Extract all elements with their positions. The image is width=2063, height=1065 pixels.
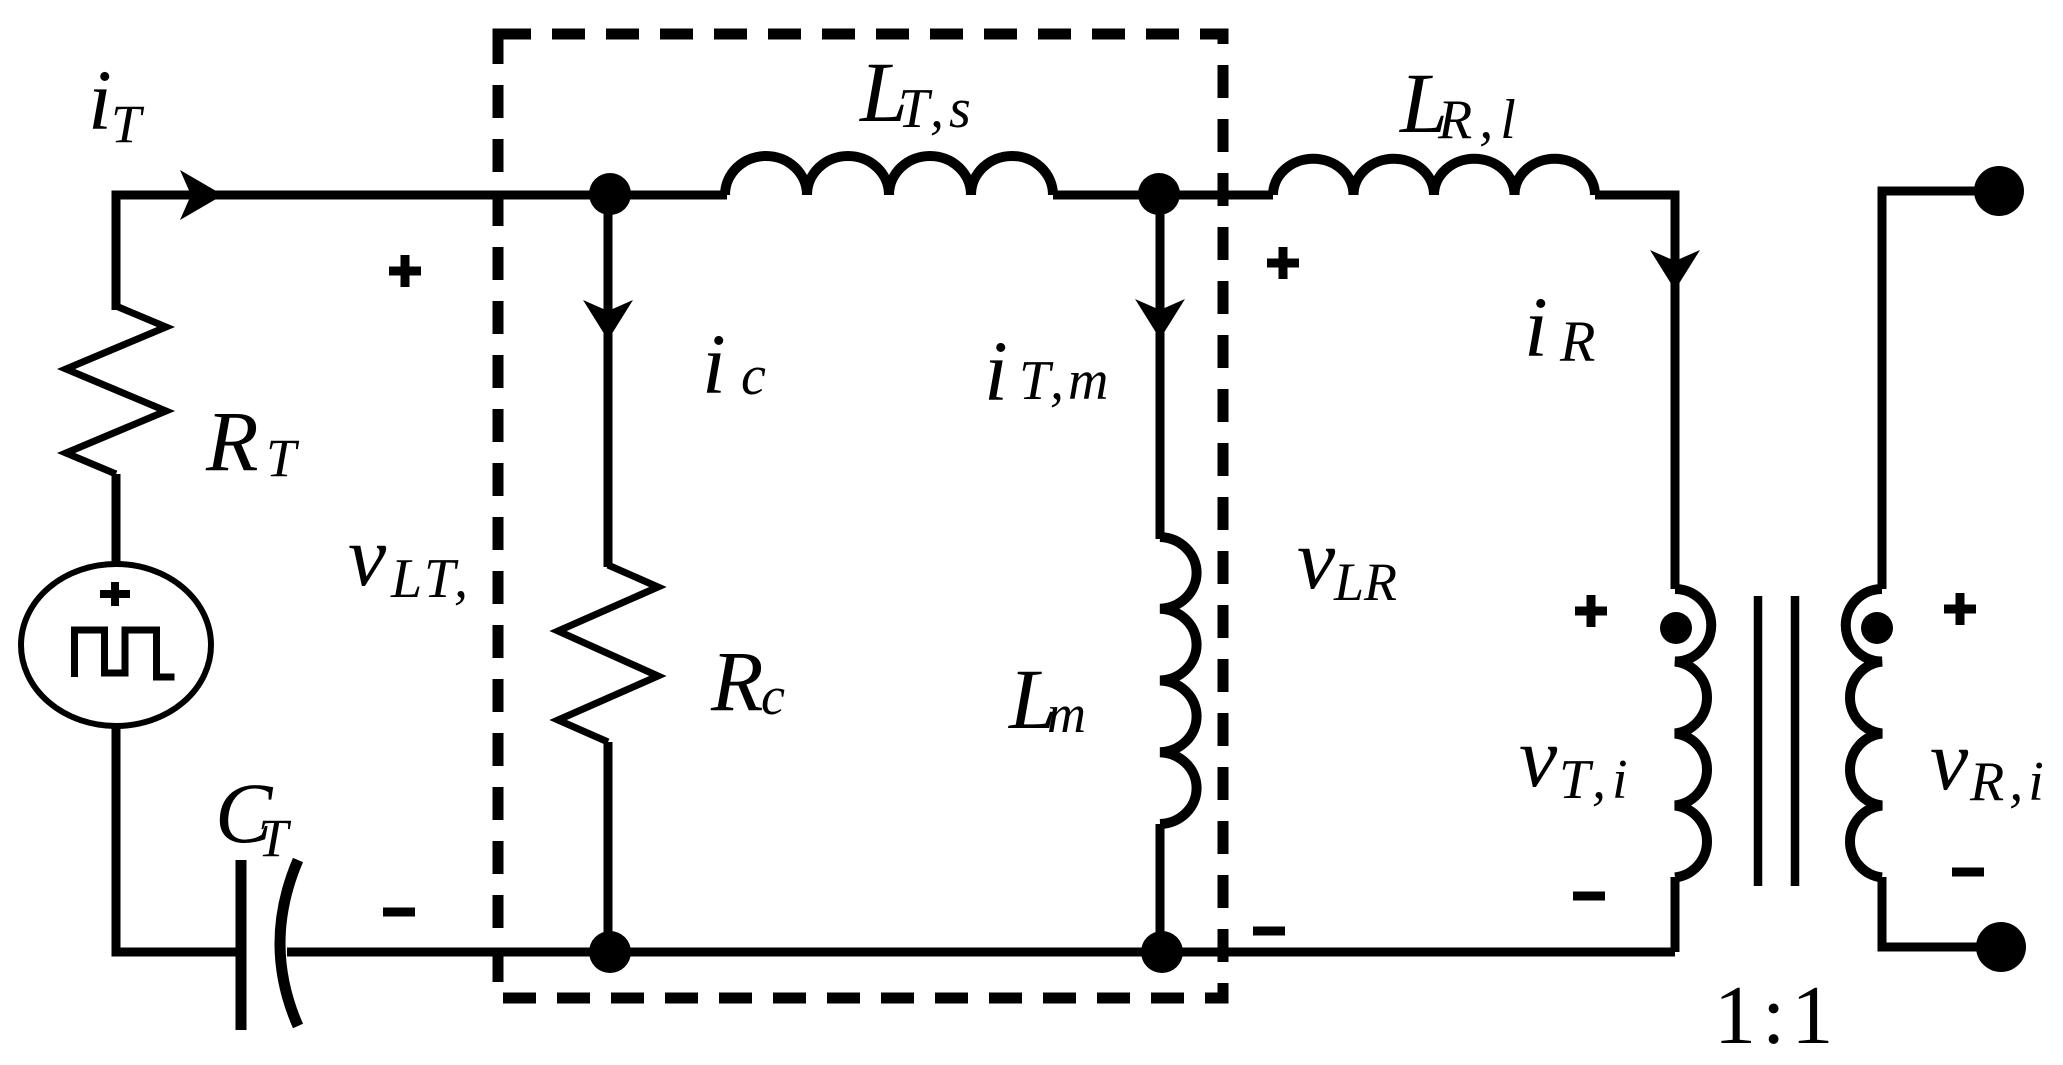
bottom bus wire: capacitor to transformer primary [287,948,1675,957]
arrow i_T,m (down) [1135,299,1185,339]
arrow i_T (right) [180,170,223,220]
svg-text:R: R [1559,309,1595,374]
svg-text:1:1: 1:1 [1714,969,1839,1062]
svg-text:c: c [741,345,766,407]
minus sign v_LR [1253,927,1285,936]
plus sign v_T,i [1575,595,1607,627]
svg-text:i: i [702,316,726,412]
wire source to bottom-left corner and to capacitor [116,726,241,952]
svg-text:v: v [348,508,387,604]
resistor R_c [558,565,658,742]
inductor L_m [1160,537,1197,824]
wire L_m bottom [1156,824,1165,952]
plus sign v_LT [389,255,421,287]
arrow i_R (down) [1650,250,1700,290]
wire primary bottom [1671,877,1680,952]
node D (bottom junction at L_m) [1141,931,1183,973]
svg-text:R,l: R,l [1437,89,1523,151]
wire from L_R,l down to transformer primary [1595,195,1675,589]
capacitor C_T curved plate [280,860,298,1026]
node C (bottom junction at R_c) [589,931,631,973]
branch i_c / R_c vertical (top part) [604,195,613,567]
source + polarity [100,582,130,606]
plus sign v_R,i [1944,593,1976,625]
svg-text:v: v [1930,712,1969,808]
svg-text:i: i [1524,279,1548,375]
svg-text:R,i: R,i [1969,751,2049,813]
arrow i_c (down) [583,300,633,340]
svg-text:v: v [1519,709,1558,805]
inductor L_R,l [1273,159,1595,195]
terminal dot top right [1974,166,2024,216]
terminal dot bottom right [1976,922,2026,972]
branch i_T,m / L_m vertical (top part) [1156,195,1165,539]
svg-text:T: T [266,428,300,488]
svg-text:R: R [710,633,764,729]
wire secondary bottom to output [1882,877,1999,947]
svg-text:R: R [205,393,259,489]
svg-text:i: i [984,323,1008,419]
minus sign v_LT [383,908,415,917]
svg-text:m: m [1047,684,1086,744]
svg-text:c: c [761,666,785,726]
wire secondary top to output [1882,191,1999,589]
svg-text:LR: LR [1333,552,1397,612]
svg-text:T,i: T,i [1559,749,1634,811]
svg-text:LT,: LT, [390,548,471,610]
minus sign v_T,i [1573,892,1605,901]
wire R_T to source [112,474,121,566]
svg-text:T,m: T,m [1019,350,1112,412]
transformer core [1758,596,1795,886]
wire between L_T,s and L_R,l [1053,191,1273,200]
svg-text:T,s: T,s [898,78,976,140]
plus sign v_LR [1267,247,1299,279]
svg-text:T: T [258,808,292,868]
inductor L_T,s [725,156,1053,195]
node B (top junction at i_T,m) [1138,173,1180,215]
source square-wave glyph [75,630,175,677]
svg-text:T: T [111,94,145,154]
transformer T1 secondary winding [1846,589,1882,878]
capacitor C_T flat plate [236,860,247,1030]
transformer T1 primary winding [1675,589,1711,878]
node A (top junction at i_c) [589,173,631,215]
source V1 (pulse source) circle [21,564,211,726]
polarity dot secondary [1861,612,1893,644]
minus sign v_R,i [1952,868,1984,877]
svg-text:v: v [1297,511,1336,607]
dashed box (gyrator/core model boundary) [498,34,1223,998]
wire R_c bottom [604,742,613,952]
wire top-left: left branch top + top wire to L_T,s [116,195,727,310]
svg-text:i: i [88,52,112,148]
resistor R_T [66,306,166,474]
polarity dot primary [1660,612,1692,644]
